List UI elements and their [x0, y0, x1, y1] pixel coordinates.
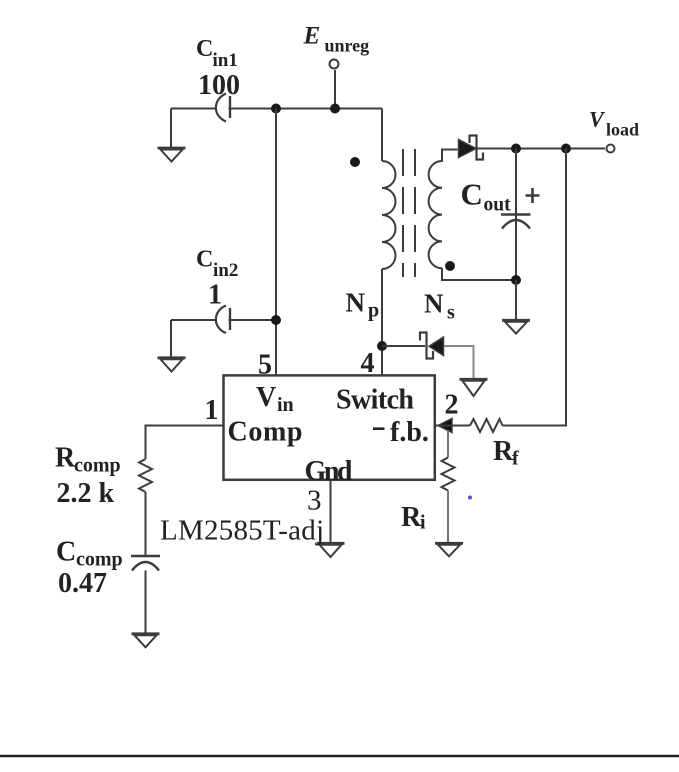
- wire secondary top to diode D1: [442, 150, 458, 163]
- value 1: [208, 280, 222, 311]
- label LM2585T-adj: [160, 515, 324, 547]
- label Gnd: [305, 456, 353, 487]
- capacitor C_in1: [216, 94, 230, 122]
- label V_load: [589, 107, 639, 140]
- label f.b.: [390, 417, 429, 448]
- minus sign before f.b.: [373, 427, 385, 430]
- svg-text:2: 2: [445, 390, 459, 421]
- wire pin 1 Comp to R_comp: [146, 426, 224, 460]
- transformer primary winding Np: [382, 161, 396, 269]
- pin number 4: [361, 348, 375, 379]
- wire top-left to C_in1: [171, 108, 216, 110]
- wire diode D2 to ground: [444, 346, 474, 379]
- svg-text:2.2 k: 2.2 k: [57, 478, 115, 509]
- junction dot C_out bottom: [511, 275, 521, 285]
- wire R_comp to C_comp: [145, 492, 147, 556]
- svg-text:Gnd: Gnd: [305, 456, 353, 487]
- svg-text:Comp: Comp: [228, 417, 303, 448]
- svg-text:1: 1: [205, 395, 219, 426]
- ground below diode D2: [460, 379, 488, 396]
- label N_s: [424, 289, 455, 324]
- transformer secondary phase dot: [445, 261, 455, 271]
- diode D2 (schottky): [420, 333, 444, 359]
- svg-text:in2: in2: [213, 260, 238, 281]
- wire top wire down to transformer primary: [381, 109, 383, 162]
- label R_f: [493, 436, 519, 470]
- wire C_in2 to Vin column: [229, 319, 277, 321]
- svg-text:C: C: [461, 177, 483, 212]
- svg-text:i: i: [420, 512, 426, 534]
- value 100: [198, 70, 240, 101]
- svg-text:in1: in1: [213, 50, 238, 71]
- transformer core: [403, 149, 415, 277]
- ground below C_in2: [158, 320, 186, 372]
- label C_in1: [196, 36, 238, 71]
- value 2.2 k: [57, 478, 115, 509]
- wire pin 2 to R_f: [435, 425, 470, 427]
- node E_unreg terminal: [330, 60, 339, 109]
- wire V_load column down to R_f: [503, 149, 567, 426]
- svg-text:in: in: [277, 394, 294, 416]
- svg-text:C: C: [196, 247, 213, 273]
- transformer primary phase dot: [350, 157, 360, 167]
- junction dot C_out top: [511, 144, 521, 154]
- svg-text:p: p: [368, 300, 379, 322]
- svg-text:V: V: [256, 382, 276, 413]
- wire R_i to ground: [447, 491, 449, 544]
- capacitor C_out: [501, 215, 531, 229]
- label C_comp: [56, 537, 123, 571]
- wire C_in1 to primary top: [229, 108, 383, 110]
- svg-text:4: 4: [361, 348, 375, 379]
- wire D1 to V_load terminal: [477, 148, 605, 150]
- label E_unreg: [303, 23, 370, 56]
- pin 2 feedback arrow: [438, 419, 452, 433]
- bottom rule: [0, 755, 679, 758]
- capacitor C_comp: [131, 556, 160, 571]
- diode D1 (schottky): [459, 136, 484, 160]
- plus sign C_out polarity: [526, 188, 540, 203]
- svg-text:comp: comp: [74, 455, 121, 477]
- junction dot pin 4 / diode D2: [377, 341, 387, 351]
- junction dot C_in2 / Vin column: [271, 315, 281, 325]
- svg-text:f.b.: f.b.: [390, 417, 429, 448]
- svg-text:s: s: [447, 302, 455, 324]
- svg-text:unreg: unreg: [325, 36, 370, 56]
- resistor R_comp: [139, 459, 152, 492]
- label R_i: [401, 502, 426, 534]
- resistor R_f: [470, 419, 503, 432]
- label C_in2: [196, 247, 238, 282]
- label Comp: [228, 417, 303, 448]
- svg-text:out: out: [484, 195, 512, 216]
- ground below C_in1: [158, 109, 186, 162]
- svg-text:R: R: [493, 436, 514, 467]
- svg-text:R: R: [55, 443, 76, 474]
- wire C_comp to ground: [145, 571, 147, 634]
- pin number 1: [205, 395, 219, 426]
- ground below C_comp: [132, 634, 160, 648]
- svg-text:3: 3: [307, 485, 322, 517]
- label C_out: [461, 177, 512, 216]
- label V_in: [256, 382, 294, 416]
- wire Vin column: [275, 109, 277, 376]
- svg-text:C: C: [196, 36, 213, 62]
- wire C_out column: [515, 149, 517, 281]
- svg-text:100: 100: [198, 70, 240, 101]
- ground below C_out: [502, 280, 530, 334]
- wire junction to diode D2: [382, 345, 425, 347]
- junction dot V_load column top: [561, 144, 571, 154]
- label Switch: [336, 385, 414, 416]
- svg-text:0.47: 0.47: [58, 568, 107, 599]
- svg-text:R: R: [401, 502, 422, 533]
- op-amp U1 LM2585T-adj box: [224, 375, 435, 479]
- label N_p: [346, 288, 380, 322]
- wire secondary bottom to C_out bottom: [442, 268, 516, 280]
- svg-text:load: load: [606, 120, 639, 140]
- pin number 3: [307, 485, 322, 517]
- label R_comp: [55, 443, 121, 477]
- transformer secondary winding Ns: [429, 161, 442, 268]
- wire R_i drop: [447, 430, 449, 458]
- svg-text:f: f: [512, 448, 519, 470]
- resistor R_i: [442, 458, 455, 491]
- svg-text:E: E: [303, 23, 321, 50]
- svg-text:5: 5: [258, 350, 272, 381]
- svg-text:N: N: [346, 288, 366, 318]
- junction dot at E_unreg / top wire: [330, 104, 340, 114]
- pin number 5: [258, 350, 272, 381]
- junction dot at Vin column / top wire: [271, 104, 281, 114]
- wire pin 3 Gnd to ground: [330, 480, 332, 544]
- svg-text:V: V: [589, 107, 606, 132]
- stray blue dot: [468, 496, 472, 500]
- node V_load terminal: [607, 145, 615, 153]
- svg-text:LM2585T-adj: LM2585T-adj: [160, 515, 324, 547]
- capacitor C_in2: [216, 306, 230, 334]
- value 0.47: [58, 568, 107, 599]
- svg-text:N: N: [424, 289, 444, 319]
- pin number 2: [445, 390, 459, 421]
- wire primary bottom to pin 4: [381, 269, 383, 375]
- svg-text:C: C: [56, 537, 76, 568]
- ground below R_i: [435, 543, 463, 556]
- svg-text:Switch: Switch: [336, 385, 414, 416]
- wire to C_in2: [171, 319, 216, 321]
- ground below pin 3: [317, 543, 345, 557]
- svg-text:1: 1: [208, 280, 222, 311]
